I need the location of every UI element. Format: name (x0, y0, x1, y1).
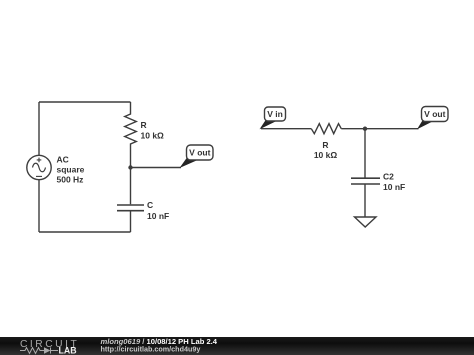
svg-text:AC: AC (57, 154, 69, 164)
svg-text:R: R (141, 120, 147, 130)
svg-text:10 nF: 10 nF (147, 211, 169, 221)
svg-text:V out: V out (424, 109, 445, 119)
svg-text:10 kΩ: 10 kΩ (141, 130, 165, 140)
svg-text:V in: V in (267, 109, 283, 119)
svg-text:R: R (322, 140, 328, 150)
svg-text:LAB: LAB (59, 346, 77, 355)
svg-text:V out: V out (189, 148, 210, 158)
svg-text:square: square (57, 164, 85, 174)
svg-text:C: C (147, 200, 153, 210)
svg-text:500 Hz: 500 Hz (57, 174, 84, 184)
svg-text:C2: C2 (383, 172, 394, 182)
svg-text:http://circuitlab.com/chd4u9y: http://circuitlab.com/chd4u9y (101, 345, 201, 354)
svg-text:10 kΩ: 10 kΩ (314, 150, 338, 160)
svg-text:10 nF: 10 nF (383, 182, 405, 192)
